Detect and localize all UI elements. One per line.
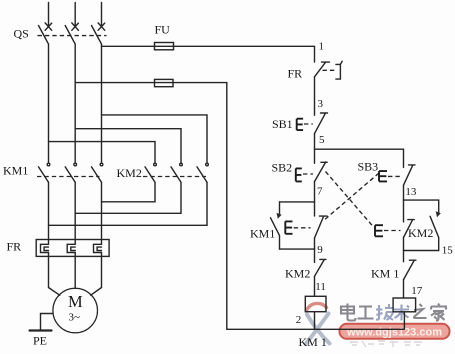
svg-text:KM 1: KM 1 — [299, 335, 327, 349]
svg-text:FR: FR — [288, 66, 303, 80]
svg-text:5: 5 — [319, 134, 325, 146]
svg-text:15: 15 — [442, 244, 454, 256]
svg-text:9: 9 — [317, 244, 323, 256]
svg-text:2: 2 — [296, 314, 302, 326]
svg-text:www.dgjs123.com: www.dgjs123.com — [346, 327, 442, 339]
svg-text:QS: QS — [14, 27, 29, 41]
svg-text:KM1: KM1 — [3, 164, 28, 178]
svg-text:3~: 3~ — [69, 312, 81, 324]
svg-text:FU: FU — [155, 23, 171, 37]
svg-text:1: 1 — [319, 40, 325, 52]
svg-text:PE: PE — [33, 334, 47, 348]
svg-text:3: 3 — [318, 98, 324, 110]
svg-text:11: 11 — [315, 281, 326, 293]
svg-text:SB3: SB3 — [358, 159, 379, 173]
svg-text:13: 13 — [405, 186, 417, 198]
svg-text:M: M — [68, 292, 83, 311]
svg-text:FR: FR — [7, 240, 22, 254]
svg-text:KM1: KM1 — [250, 226, 275, 240]
svg-text:7: 7 — [317, 186, 323, 198]
svg-text:SB1: SB1 — [272, 117, 293, 131]
svg-text:KM2: KM2 — [285, 267, 310, 281]
svg-text:SB2: SB2 — [272, 160, 293, 174]
svg-text:KM2: KM2 — [117, 166, 142, 180]
svg-text:KM 1: KM 1 — [371, 267, 399, 281]
svg-text:17: 17 — [411, 285, 423, 297]
svg-text:KM2: KM2 — [408, 226, 433, 240]
